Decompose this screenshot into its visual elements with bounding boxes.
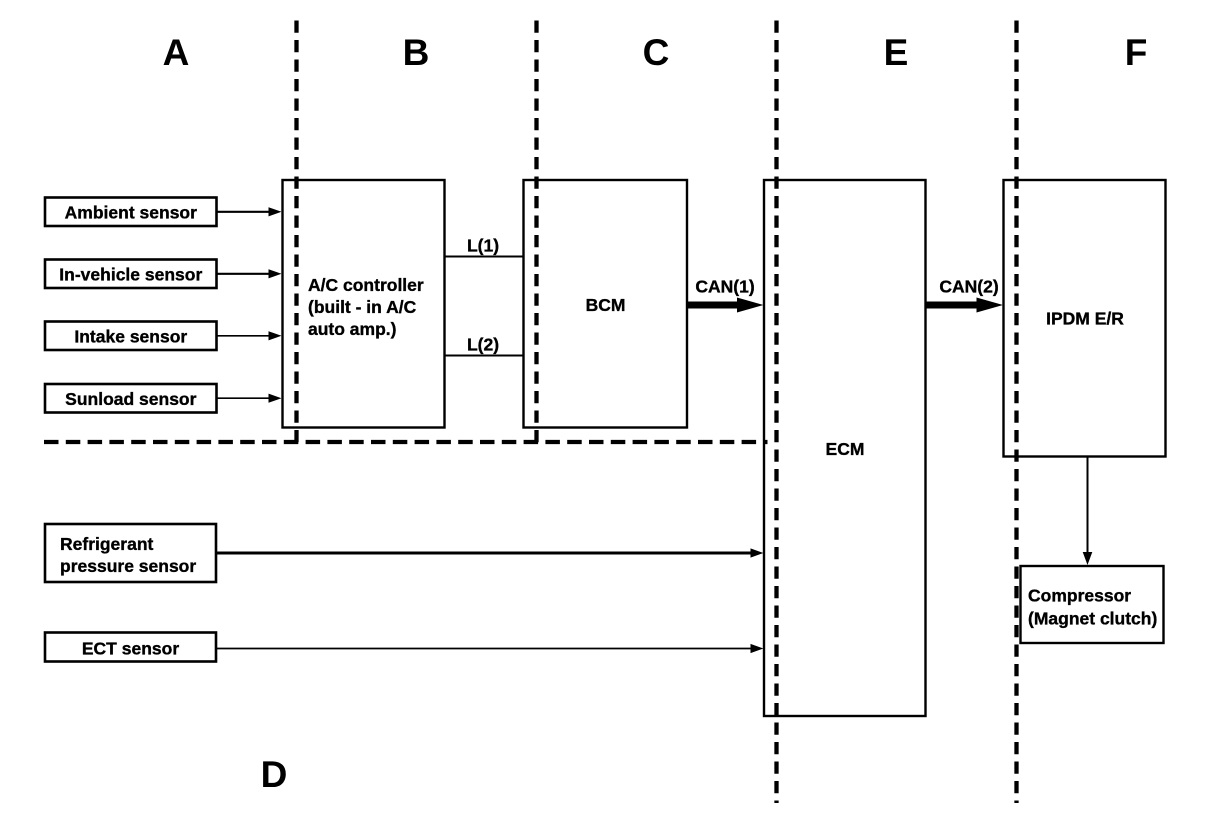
block: Sunload sensor — [45, 384, 217, 413]
svg-text:A: A — [163, 32, 190, 73]
svg-text:L(2): L(2) — [467, 335, 499, 355]
svg-text:(built - in A/C: (built - in A/C — [308, 297, 417, 317]
block: Refrigerant pressure sensor — [45, 524, 216, 582]
block: Compressor (Magnet clutch) — [1021, 566, 1164, 643]
wire: Intake sensor to A/C controller — [217, 331, 282, 340]
zone boundary dashed line C/E — [774, 21, 778, 804]
svg-text:In-vehicle sensor: In-vehicle sensor — [59, 264, 202, 284]
wire: Ambient sensor to A/C controller — [217, 207, 282, 216]
wire: IPDM E/R down to Compressor — [1083, 457, 1093, 566]
wire: CAN(1) thick arrow BCM to ECM — [687, 277, 764, 313]
zone boundary dashed line A/B — [294, 21, 298, 444]
svg-text:ECM: ECM — [826, 439, 865, 459]
block: Intake sensor — [45, 322, 217, 351]
block: BCM — [524, 180, 688, 428]
svg-text:Compressor: Compressor — [1028, 586, 1131, 606]
svg-text:IPDM E/R: IPDM E/R — [1046, 309, 1124, 329]
svg-text:B: B — [403, 32, 430, 73]
svg-text:Ambient sensor: Ambient sensor — [65, 202, 197, 222]
block: Ambient sensor — [45, 198, 217, 227]
svg-text:E: E — [884, 32, 909, 73]
svg-text:Sunload sensor: Sunload sensor — [65, 389, 196, 409]
svg-text:L(1): L(1) — [467, 236, 499, 256]
svg-text:CAN(1): CAN(1) — [695, 277, 754, 297]
block: ECT sensor — [45, 633, 216, 662]
svg-text:CAN(2): CAN(2) — [939, 277, 998, 297]
svg-text:(Magnet clutch): (Magnet clutch) — [1028, 609, 1157, 629]
svg-text:BCM: BCM — [586, 295, 626, 315]
svg-text:A/C controller: A/C controller — [308, 275, 424, 295]
svg-text:ECT sensor: ECT sensor — [82, 638, 179, 658]
block: IPDM E/R — [1004, 180, 1166, 457]
zone boundary dashed line B/C — [534, 21, 538, 444]
svg-text:Intake sensor: Intake sensor — [74, 326, 187, 346]
wire: Sunload sensor to A/C controller — [217, 394, 282, 403]
zone boundary dashed line E/F — [1014, 21, 1018, 804]
wire: ECT sensor to ECM — [216, 644, 764, 653]
block: A/C controller (built-in A/C auto amp.) — [283, 180, 445, 428]
block: In-vehicle sensor — [45, 260, 217, 289]
svg-text:F: F — [1125, 32, 1148, 73]
wire: Refrigerant pressure sensor to ECM — [216, 548, 764, 557]
wire: L(1) between A/C controller and BCM — [445, 236, 524, 257]
zone boundary dashed line D horizontal — [44, 440, 768, 444]
svg-text:D: D — [261, 754, 288, 795]
wire: L(2) between A/C controller and BCM — [445, 335, 524, 356]
svg-text:auto amp.): auto amp.) — [308, 319, 396, 339]
block: ECM — [764, 180, 926, 716]
svg-text:C: C — [643, 32, 670, 73]
svg-text:pressure sensor: pressure sensor — [60, 556, 196, 576]
wire: In-vehicle sensor to A/C controller — [217, 269, 282, 278]
wire: CAN(2) thick arrow ECM to IPDM E/R — [926, 277, 1004, 313]
svg-text:Refrigerant: Refrigerant — [60, 534, 154, 554]
